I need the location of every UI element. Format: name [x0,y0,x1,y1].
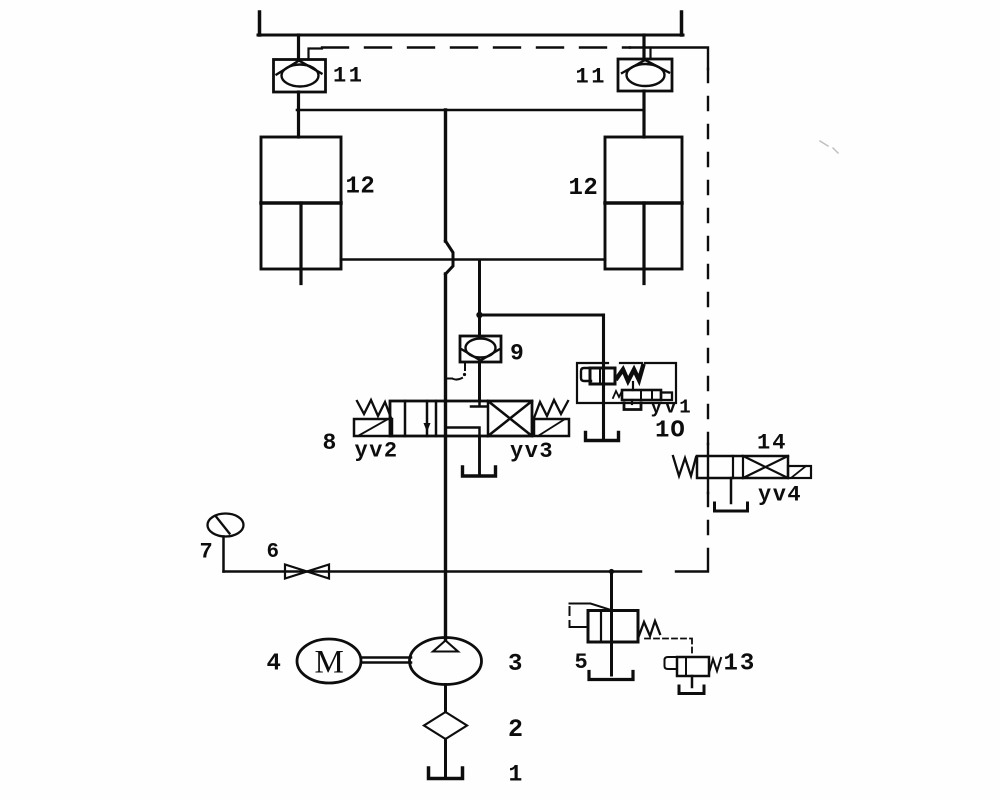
valve 8 centre blocked port [471,401,487,407]
wire valve 10 to tank [602,363,605,440]
wire junction to valve 10 [480,314,604,317]
relief valve 5 body [588,611,638,643]
valve 8 left box arrow [424,423,431,432]
wire frame to right check valve [642,35,645,59]
svg-text:3: 3 [508,651,522,678]
tank below valve 8 [463,467,496,476]
valve 8 right solenoid yv3 [534,419,569,436]
check valve 11 left pilot stub [309,49,323,60]
svg-text:yv4: yv4 [758,483,802,508]
wire right valve to cylinder [642,91,645,137]
wire to relief valve 5 [610,572,613,676]
tank below valve 10 [586,433,619,441]
valve 14 solenoid yv4 [788,466,811,478]
artifacts [820,141,838,153]
pressure gauge 7 [208,514,244,537]
wire spring to yv1 [632,382,634,390]
wire valve 14 to tank [730,478,733,503]
valve 13 body [677,657,709,676]
svg-text:11: 11 [576,65,607,90]
wire frame to left check valve [297,35,300,60]
wire pump to filter [444,685,447,713]
svg-text:7: 7 [200,540,213,565]
svg-text:6: 6 [267,541,280,564]
valve 8 left solenoid yv2 [354,419,392,436]
svg-text:yv3: yv3 [510,439,554,464]
pump triangle [433,641,458,652]
motor 4 [297,639,361,683]
wire valve 9 to valve 8 [478,362,481,401]
wire filter to tank [444,739,447,778]
check valve 11 right pilot stub [649,48,651,60]
valve 14 body [697,456,788,478]
valve 8 divider 2 [487,401,490,436]
relief valve 5 spring [639,621,661,637]
svg-text:12: 12 [346,174,376,201]
machine frame top line [258,34,683,37]
pump 3 [410,638,482,685]
svg-text:5: 5 [575,650,588,675]
tank 1 [429,768,463,779]
svg-text:12: 12 [569,175,599,202]
valve 8 right box X [488,401,532,436]
check valve 9 body [460,336,501,362]
svg-text:14: 14 [757,431,787,456]
relief valve 5 pilot loop [570,604,610,628]
tank below yv1 [631,400,633,404]
tank below valve 5 [589,672,633,680]
valve 8 body [390,401,532,436]
valve 10 spring [617,366,643,381]
gauge stem [222,537,225,572]
wire distribution line [224,570,642,573]
check valve 9 seat [462,350,499,361]
svg-text:8: 8 [323,430,337,456]
wire down to valve 10 [602,315,605,363]
relief valve 10 enclosure [577,363,676,403]
svg-text:M: M [315,645,344,681]
valve 8 left spring [357,400,391,418]
pilot dashed line top [322,46,630,48]
wire to check valve 9 [478,260,481,336]
svg-text:yv1: yv1 [651,397,694,419]
check valve 9 ball [466,339,496,358]
svg-text:4: 4 [267,651,281,678]
check valve 11 left ball [282,65,319,87]
svg-text:11: 11 [333,64,364,89]
frame left tick [258,12,262,35]
svg-text:13: 13 [724,651,757,678]
check valve 9 pilot dashes [464,364,466,370]
valve 8 divider 1 [435,401,438,436]
cylinder 12 right piston [605,201,682,205]
valve 14 dividers [733,456,743,478]
tank below valve 13 [679,686,704,694]
boundary solid through valve 14 [707,444,709,493]
wire valve 8 to tank [478,436,481,474]
cylinder 12 right rod [642,203,645,284]
main pressure line upper [444,110,447,241]
valve 14 spring [673,456,696,476]
valve 10 main stage [590,368,615,384]
boundary dashed below valve 14 [707,493,709,549]
wire connecting both branches [297,109,644,112]
check valve 11 left body [274,60,326,93]
cylinder 12 right body [605,137,682,269]
check valve 11 right body [618,59,672,91]
pilot dashed line 5 to 13 [645,639,692,657]
solenoid valve yv1 [622,390,661,400]
main pressure line lower [444,274,447,640]
valve 13 pilot loop [665,657,685,669]
frame right tick [680,12,684,35]
valve 8 centre bypass L [447,428,480,437]
svg-text:yv2: yv2 [355,439,399,464]
cylinder 12 left piston [261,201,341,205]
valve 13 spring [709,658,721,673]
shut-off valve 6 [285,565,307,579]
svg-text:1: 1 [509,762,523,788]
cylinder 12 left body [261,137,341,269]
check valve 11 right seat [622,60,669,73]
valve 14 X [743,456,788,478]
cylinder 12 left rod [299,203,302,284]
main line jog crossing [446,241,454,274]
svg-text:1O: 1O [655,418,686,445]
svg-text:2: 2 [508,715,523,744]
check valve 11 right ball [627,64,665,86]
valve 8 left box flow lines [405,401,427,436]
svg-text:9: 9 [510,341,524,367]
valve 10 pilot loop [581,368,599,381]
motor shaft [361,658,411,663]
wire valve 13 to tank [691,676,694,687]
check valve 11 left seat [277,61,322,75]
boundary bottom corner [676,549,708,572]
valve 8 right spring [534,400,568,418]
boundary dashed right vertical [707,69,709,444]
tank below valve 14 [715,503,748,511]
node junction [476,312,482,318]
wire left valve to cylinder [297,92,300,137]
filter 2 [424,712,467,739]
wire rod-side line [341,258,605,261]
pilot line solid to corner [630,48,708,70]
